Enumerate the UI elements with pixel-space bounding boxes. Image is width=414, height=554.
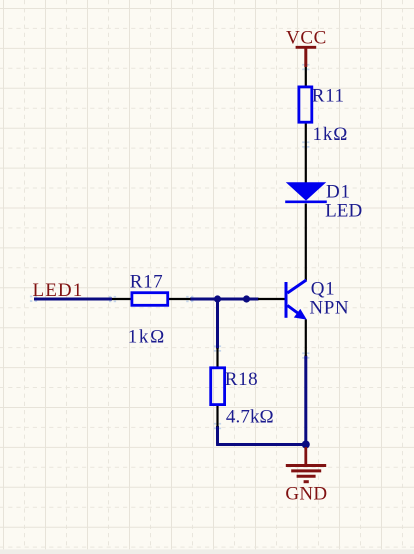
svg-text:Q1: Q1 (311, 278, 335, 299)
svg-text:R17: R17 (130, 272, 163, 293)
svg-text:LED1: LED1 (33, 280, 84, 301)
svg-text:R18: R18 (225, 369, 258, 390)
svg-text:VCC: VCC (286, 28, 327, 49)
svg-text:1kΩ: 1kΩ (313, 124, 349, 145)
svg-text:1kΩ: 1kΩ (128, 326, 166, 347)
svg-text:D1: D1 (326, 182, 351, 203)
svg-text:NPN: NPN (309, 298, 349, 319)
svg-text:R11: R11 (312, 86, 345, 107)
svg-text:GND: GND (285, 484, 327, 505)
svg-text:LED: LED (325, 201, 362, 222)
svg-text:4.7kΩ: 4.7kΩ (226, 406, 274, 427)
